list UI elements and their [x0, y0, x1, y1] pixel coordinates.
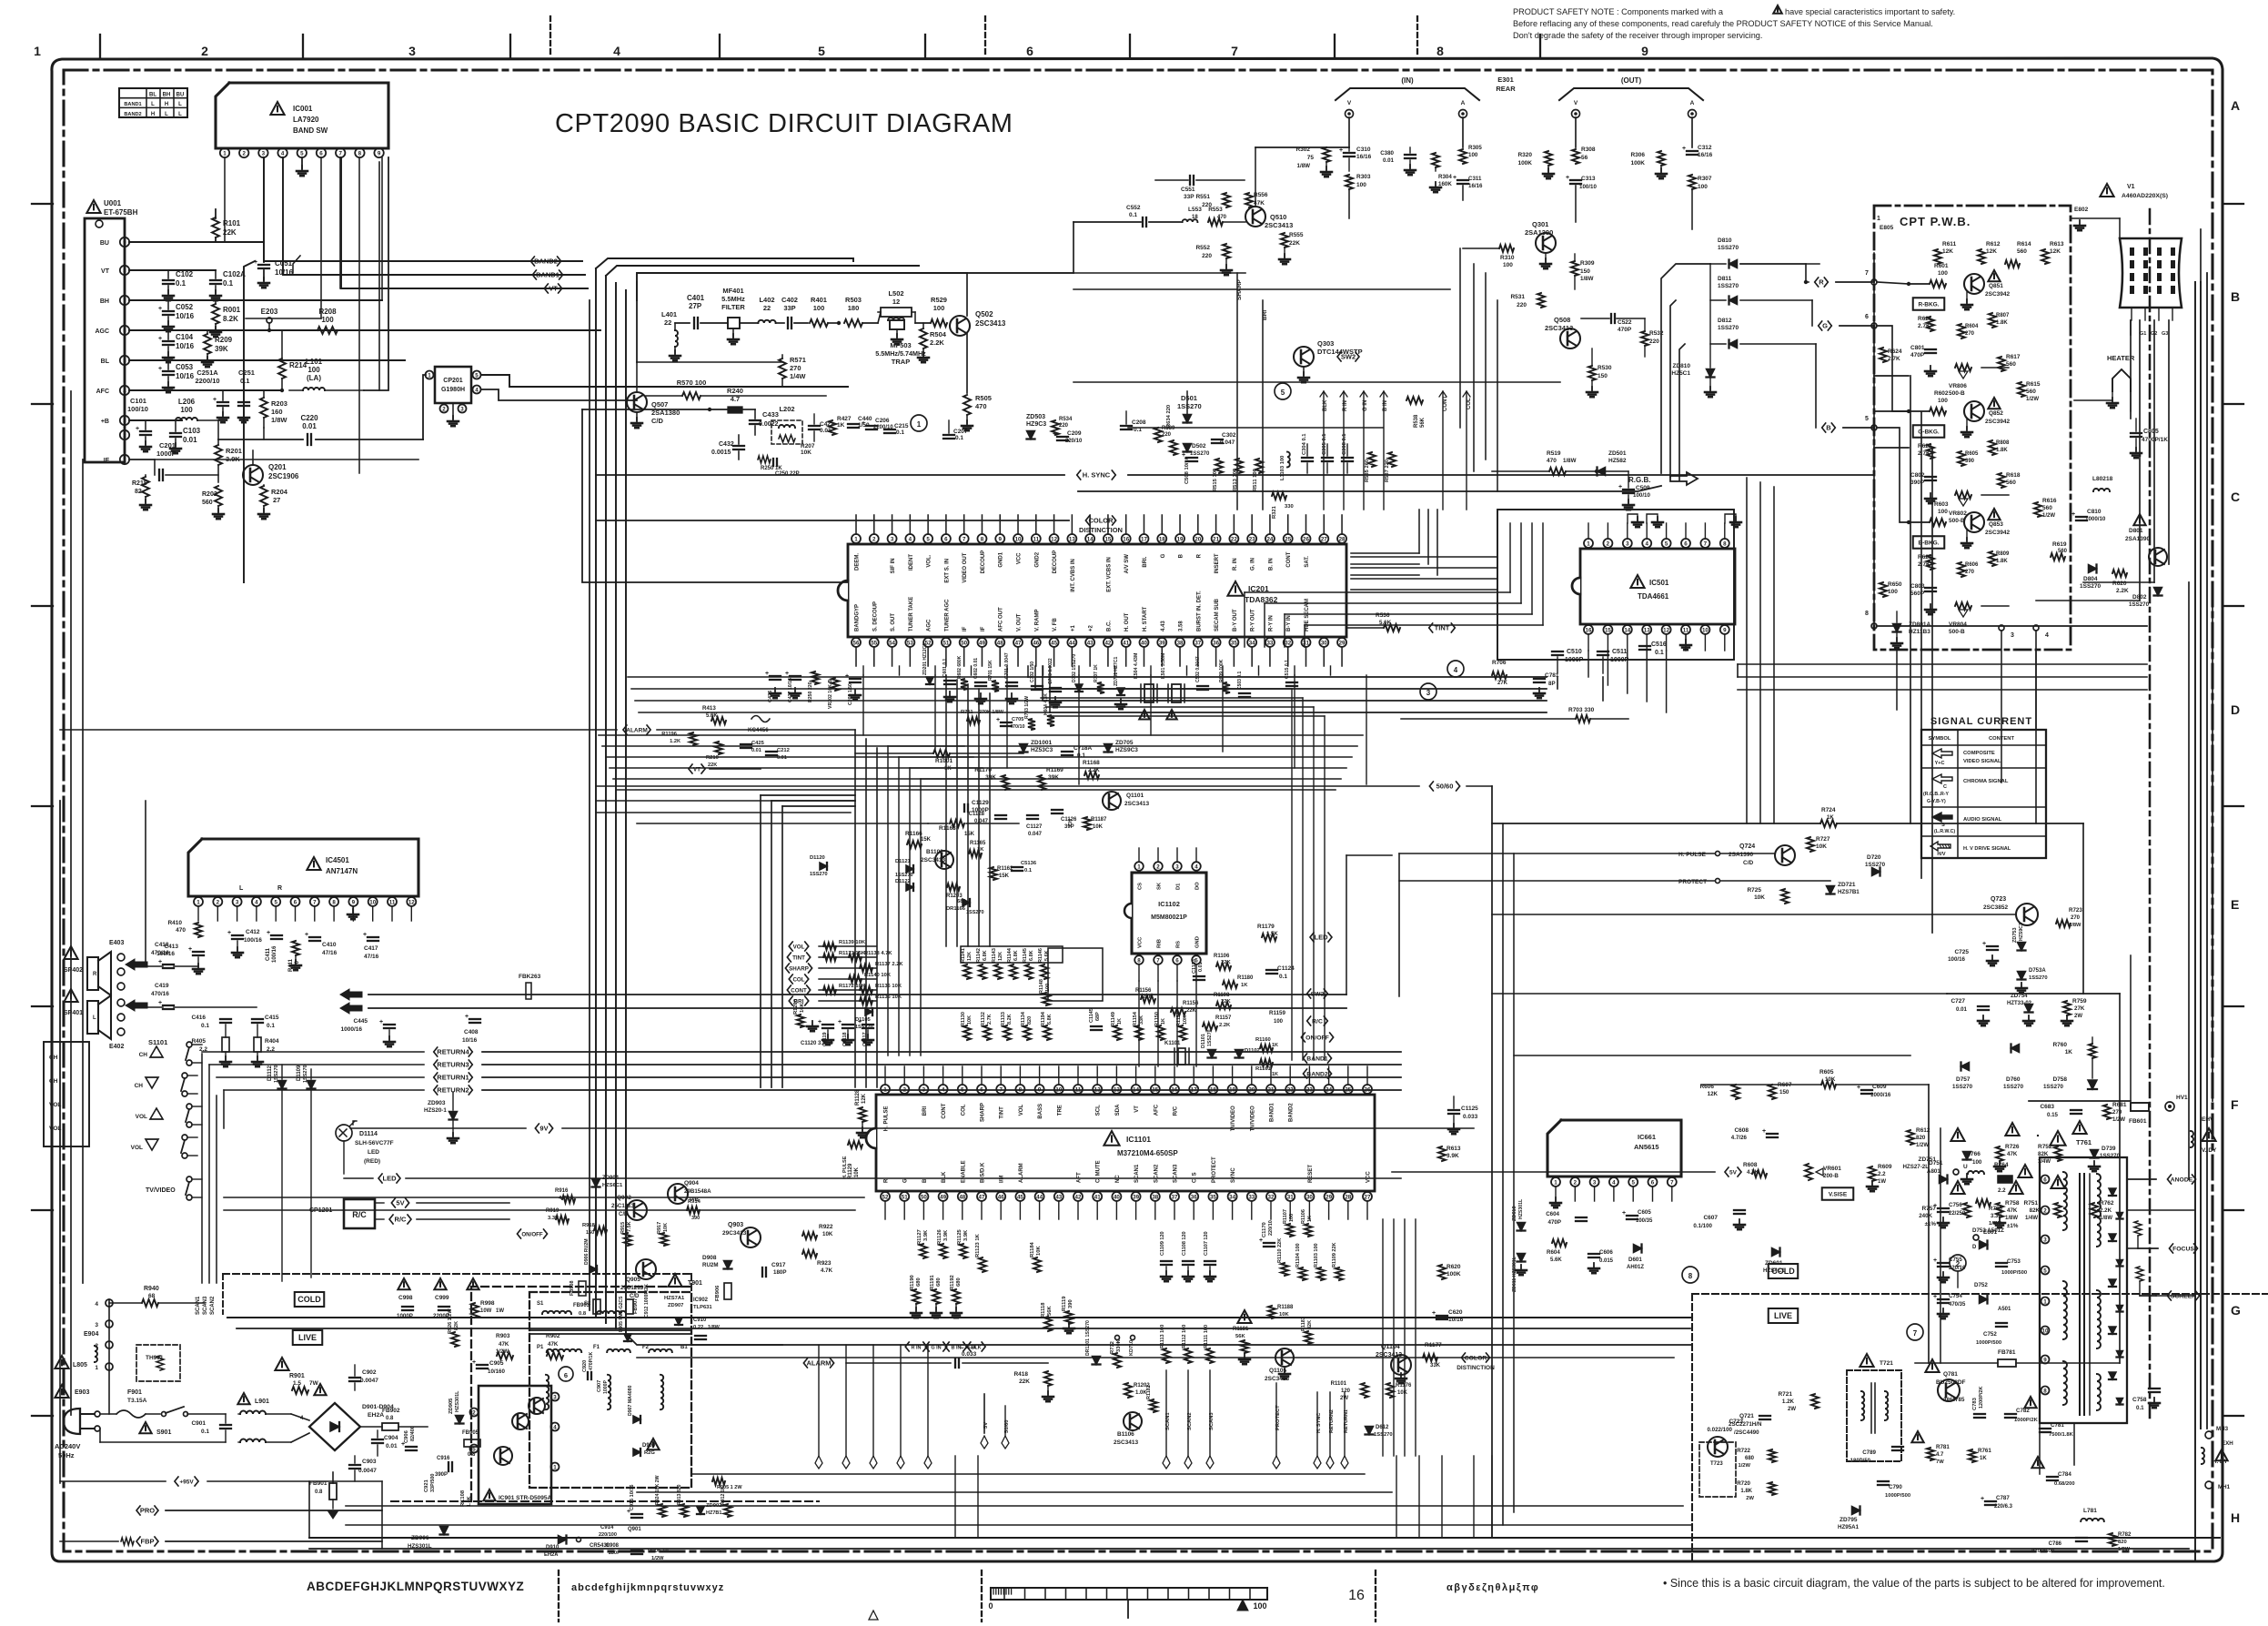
svg-text:7: 7	[338, 150, 342, 157]
svg-text:R724: R724	[1821, 807, 1836, 813]
svg-text:E402: E402	[109, 1044, 124, 1050]
svg-text:1SS270: 1SS270	[2129, 601, 2150, 608]
svg-text:100: 100	[1888, 589, 1898, 595]
svg-text:R1179: R1179	[1257, 924, 1275, 930]
svg-text:RETURN1: RETURN1	[437, 1074, 469, 1082]
svg-text:L101: L101	[306, 358, 323, 366]
svg-text:PROTECT: PROTECT	[1212, 1156, 1217, 1183]
svg-text:4.7: 4.7	[1936, 1452, 1944, 1458]
svg-text:C401: C401	[687, 294, 705, 302]
svg-text:180: 180	[848, 304, 860, 312]
svg-text:D720: D720	[1867, 854, 1881, 861]
svg-text:2SC3413: 2SC3413	[975, 319, 1006, 328]
svg-text:150: 150	[1598, 373, 1608, 379]
capacitor C102	[167, 270, 169, 278]
power connector circles	[106, 1299, 113, 1307]
svg-text:1K: 1K	[1241, 983, 1248, 988]
svg-text:4.43: 4.43	[1161, 621, 1166, 631]
svg-text:31: 31	[1303, 640, 1309, 646]
svg-text:IC901 STR-D5095A: IC901 STR-D5095A	[499, 1495, 551, 1501]
svg-text:R571: R571	[790, 356, 806, 364]
svg-text:C/D: C/D	[651, 417, 664, 425]
svg-text:560P: 560P	[1910, 591, 1925, 597]
svg-text:16: 16	[1586, 627, 1592, 633]
svg-text:EXT. VCBS IN: EXT. VCBS IN	[1106, 557, 1112, 592]
svg-text:20: 20	[1194, 536, 1201, 542]
svg-text:43: 43	[1055, 1194, 1062, 1200]
svg-text:30: 30	[1321, 640, 1327, 646]
resistor R208	[318, 327, 338, 334]
capacitor C422	[809, 425, 820, 427]
svg-text:V. DY: V. DY	[2202, 1147, 2217, 1154]
fuse FB901	[329, 1483, 337, 1500]
svg-text:7.5K: 7.5K	[627, 1221, 632, 1232]
R1188 resistor	[1268, 1306, 1275, 1318]
svg-text:EHV: EHV	[2202, 1116, 2214, 1123]
svg-text:C607: C607	[1703, 1215, 1718, 1221]
svg-text:4: 4	[553, 1424, 557, 1430]
svg-text:C502 0.0047: C502 0.0047	[1195, 656, 1201, 682]
svg-text:R1101: R1101	[1331, 1381, 1347, 1387]
svg-text:82K: 82K	[2030, 1207, 2041, 1214]
svg-text:D753 A501Z: D753 A501Z	[1972, 1227, 2004, 1234]
svg-text:L901: L901	[255, 1399, 269, 1405]
R903 R902 resistors	[497, 1352, 513, 1359]
svg-text:DO: DO	[1195, 882, 1201, 890]
svg-text:C516: C516	[1651, 641, 1667, 648]
svg-text:2: 2	[2043, 1207, 2047, 1214]
svg-text:2200/10: 2200/10	[195, 377, 219, 385]
svg-text:100/10: 100/10	[1579, 184, 1597, 190]
svg-text:1000P/500: 1000P/500	[2001, 1270, 2027, 1276]
svg-text:4.7K: 4.7K	[821, 1267, 833, 1274]
svg-text:9: 9	[123, 239, 126, 246]
svg-text:S901: S901	[156, 1429, 171, 1436]
bus corner bottom left	[626, 1334, 782, 1345]
svg-text:Q201: Q201	[268, 463, 287, 471]
svg-text:R552: R552	[1195, 245, 1210, 251]
resistor R505	[963, 395, 971, 415]
svg-text:R1181: R1181	[1233, 1327, 1249, 1332]
svg-text:L805: L805	[73, 1362, 87, 1368]
svg-text:FB902: FB902	[382, 1408, 400, 1414]
resistor R411	[292, 941, 299, 955]
switch bank box left	[44, 1042, 89, 1146]
svg-text:C1120 3.3/50: C1120 3.3/50	[801, 1041, 833, 1046]
svg-text:VOL.: VOL.	[927, 554, 932, 567]
svg-text:R1001: R1001	[935, 758, 953, 764]
bottom fold marks	[558, 1570, 559, 1621]
svg-text:3: 3	[553, 1394, 557, 1400]
svg-text:1: 1	[223, 150, 227, 157]
ZD601 zener	[1772, 1248, 1780, 1257]
svg-text:22K: 22K	[1143, 995, 1153, 1000]
R1118 R1119 resistors	[1044, 1317, 1052, 1331]
L781 bottom	[2081, 1519, 2104, 1521]
svg-text:ZD610: ZD610	[1512, 1206, 1517, 1221]
svg-text:47K: 47K	[548, 1341, 559, 1348]
svg-text:R1104 100: R1104 100	[1295, 1243, 1301, 1267]
svg-text:R504: R504	[930, 330, 947, 338]
svg-text:R: R	[93, 972, 97, 977]
FB905 fuse	[464, 1439, 480, 1447]
svg-text:220: 220	[1202, 253, 1212, 259]
svg-text:R903: R903	[496, 1333, 510, 1339]
svg-text:100/10: 100/10	[1633, 492, 1650, 499]
Q902 Q904 upper transistors	[627, 1200, 647, 1220]
svg-text:16: 16	[1348, 1588, 1365, 1603]
amp cell G-BKG.	[1930, 408, 1946, 415]
svg-text:DR1201 1SS270: DR1201 1SS270	[1085, 1320, 1091, 1356]
svg-text:AFC: AFC	[1154, 1104, 1159, 1116]
svg-text:R303: R303	[1356, 174, 1371, 180]
svg-text:2: 2	[123, 432, 126, 439]
double audio arrows	[340, 989, 362, 1000]
svg-text:Q301: Q301	[1532, 220, 1548, 228]
svg-text:(OUT): (OUT)	[1621, 76, 1642, 85]
wire from CPT to right bus	[1873, 253, 1875, 626]
svg-text:+B: +B	[101, 419, 109, 425]
wire BAND1 net	[283, 157, 585, 275]
capacitor C201	[129, 459, 155, 460]
svg-text:270: 270	[790, 364, 801, 372]
svg-text:R1190: R1190	[910, 1275, 915, 1290]
top right web verticals	[1473, 264, 1475, 471]
svg-text:D811: D811	[1718, 276, 1732, 282]
R706 C781 parts	[1492, 672, 1507, 679]
svg-text:C: C	[2231, 490, 2240, 504]
svg-text:VOL: VOL	[793, 944, 805, 951]
COLD LIVE right	[1769, 1264, 1798, 1278]
svg-text:35: 35	[1231, 640, 1237, 646]
svg-text:SHARP: SHARP	[981, 1103, 986, 1122]
svg-text:1/2W: 1/2W	[2026, 397, 2039, 402]
connector CP201	[435, 367, 471, 403]
svg-text:D1121: D1121	[895, 859, 912, 864]
svg-text:2SC3413: 2SC3413	[1124, 801, 1149, 807]
resistor R101	[212, 217, 219, 237]
svg-text:2SA1390: 2SA1390	[1525, 228, 1553, 237]
audio arrow left E402	[126, 1000, 147, 1011]
R609 resistor	[1869, 1166, 1876, 1181]
svg-text:41: 41	[1123, 640, 1129, 646]
svg-text:R758: R758	[2005, 1200, 2020, 1207]
C920 cap	[587, 1372, 589, 1379]
L766 D751 R764 row	[1968, 1171, 1984, 1174]
svg-text:8: 8	[1688, 1272, 1693, 1280]
R620 resistor	[2112, 570, 2127, 577]
svg-text:47/16: 47/16	[322, 950, 338, 956]
svg-text:680: 680	[1745, 1456, 1755, 1461]
svg-text:COL: COL	[792, 977, 804, 984]
svg-text:R1139 10K: R1139 10K	[839, 940, 866, 945]
svg-text:10: 10	[1015, 536, 1022, 542]
svg-text:G: G	[2231, 1303, 2241, 1318]
svg-text:2SC3413: 2SC3413	[1265, 221, 1293, 229]
svg-text:2W: 2W	[1746, 1496, 1754, 1501]
svg-text:16: 16	[1123, 536, 1129, 542]
resistor R001	[212, 304, 219, 324]
svg-text:1SS270: 1SS270	[2003, 1084, 2024, 1090]
svg-text:COLD: COLD	[1771, 1267, 1795, 1276]
left area bus wires	[59, 801, 61, 1283]
svg-text:HZS301L: HZS301L	[1518, 1198, 1524, 1219]
svg-text:8: 8	[1723, 540, 1727, 547]
svg-text:6: 6	[123, 328, 126, 334]
svg-text:H: H	[165, 102, 168, 107]
svg-text:560: 560	[2042, 505, 2052, 511]
svg-text:3: 3	[922, 1086, 926, 1093]
svg-text:K504 4.43M: K504 4.43M	[1134, 653, 1139, 679]
svg-text:7: 7	[1670, 1179, 1674, 1186]
svg-text:AH01Z: AH01Z	[1627, 1265, 1644, 1270]
svg-text:C552: C552	[1126, 205, 1141, 211]
svg-text:C907: C907	[597, 1380, 602, 1392]
svg-text:C705: C705	[1012, 717, 1023, 722]
D739 diode	[2091, 1150, 2099, 1158]
svg-text:1/8W: 1/8W	[1989, 1221, 2001, 1227]
svg-text:IC001: IC001	[293, 105, 313, 113]
svg-text:ON/OFF: ON/OFF	[521, 1232, 543, 1238]
DR1201 diode R712	[1093, 1357, 1101, 1365]
C1128 C1127 C1126 caps	[995, 814, 1006, 816]
svg-text:H: H	[151, 112, 155, 117]
svg-text:C052: C052	[176, 303, 194, 311]
svg-text:C1118: C1118	[842, 1032, 848, 1046]
svg-text:1000P: 1000P	[1610, 657, 1629, 663]
svg-text:100: 100	[933, 304, 945, 312]
svg-text:R: R	[1196, 553, 1202, 558]
svg-text:C904: C904	[384, 1435, 398, 1441]
C905 cap	[477, 1364, 488, 1366]
Q1101 transistor	[1103, 792, 1121, 810]
svg-text:MH3: MH3	[2216, 1426, 2229, 1432]
svg-text:C998: C998	[398, 1295, 413, 1301]
svg-text:C606: C606	[1599, 1249, 1613, 1256]
capacitor C101	[145, 420, 146, 429]
svg-text:R615: R615	[2026, 381, 2041, 388]
svg-text:R924 18K 2W: R924 18K 2W	[655, 1475, 660, 1505]
svg-text:C206: C206	[875, 418, 890, 424]
svg-text:VCC: VCC	[1017, 552, 1023, 564]
svg-text:IC4501: IC4501	[326, 856, 349, 864]
svg-text:R1149: R1149	[1111, 1012, 1116, 1026]
svg-text:B IN: B IN	[1383, 400, 1388, 411]
left bus to psu	[59, 1283, 61, 1483]
svg-text:+: +	[305, 932, 308, 938]
svg-text:C906: C906	[404, 1429, 409, 1443]
svg-text:T901: T901	[688, 1280, 702, 1287]
svg-text:8: 8	[981, 536, 984, 542]
svg-text:ZD501: ZD501	[1608, 450, 1627, 457]
svg-text:+: +	[379, 1019, 383, 1025]
svg-text:GND: GND	[1195, 936, 1201, 948]
svg-text:BAND1: BAND1	[1270, 1103, 1275, 1122]
R922 R923 resistors	[802, 1232, 817, 1239]
svg-text:T761: T761	[2076, 1138, 2092, 1146]
svg-text:12K: 12K	[862, 1093, 867, 1104]
svg-text:R1150: R1150	[1154, 1012, 1160, 1026]
wire VT net	[341, 157, 588, 288]
svg-text:39K: 39K	[215, 345, 228, 353]
wire IC001 pin5 ground	[301, 157, 303, 168]
svg-text:0.01: 0.01	[1956, 1006, 1968, 1013]
C502 R609 C503 parts	[1197, 685, 1208, 687]
Q1105 transistor	[1275, 1348, 1294, 1367]
capacitor C104	[167, 330, 169, 339]
svg-text:220: 220	[1059, 423, 1069, 429]
svg-text:G1980H: G1980H	[441, 387, 465, 393]
svg-text:33K: 33K	[1430, 1363, 1441, 1368]
svg-text:BU: BU	[100, 240, 109, 247]
svg-text:MH1: MH1	[2218, 1484, 2231, 1490]
svg-text:1SS270: 1SS270	[1952, 1084, 1973, 1090]
svg-text:C208: C208	[1132, 419, 1146, 426]
svg-text:22K: 22K	[1221, 999, 1231, 1005]
svg-text:0.1: 0.1	[1024, 868, 1033, 874]
svg-text:C790: C790	[1889, 1484, 1902, 1490]
svg-text:RIB: RIB	[1157, 939, 1163, 948]
svg-text:1/8W: 1/8W	[2100, 1216, 2112, 1221]
svg-text:VOL: VOL	[136, 1114, 147, 1120]
svg-text:1/2W: 1/2W	[1916, 1143, 1929, 1148]
D907 D909 diodes	[633, 1416, 640, 1423]
capacitor C103	[175, 420, 176, 431]
svg-text:44: 44	[1069, 640, 1075, 646]
svg-text:10K: 10K	[822, 1231, 833, 1237]
svg-text:C912 1000P/2K: C912 1000P/2K	[644, 1284, 650, 1318]
flyback T761	[2050, 1131, 2065, 1146]
svg-text:MF503: MF503	[890, 341, 911, 349]
svg-text:0.1: 0.1	[1279, 974, 1287, 980]
svg-text:G. IN: G. IN	[1251, 558, 1256, 571]
svg-text:RESET: RESET	[1308, 1165, 1314, 1183]
svg-text:7: 7	[1865, 270, 1869, 277]
svg-text:22K: 22K	[1019, 1379, 1030, 1385]
svg-text:R320: R320	[1517, 152, 1532, 158]
R606 R607 R605 C609 top row	[1732, 1085, 1739, 1099]
svg-text:3: 3	[1175, 863, 1179, 870]
IC501 pin10 gnd	[1685, 634, 1687, 642]
R1168 resistor	[1084, 772, 1099, 779]
row ticks right	[2223, 203, 2243, 205]
resistor R410	[195, 923, 202, 937]
svg-text:RU2M: RU2M	[702, 1262, 719, 1268]
svg-text:51: 51	[942, 640, 949, 646]
resistor R552	[1223, 244, 1230, 258]
svg-text:390: 390	[691, 1216, 700, 1221]
svg-text:R609 100K: R609 100K	[1219, 659, 1225, 682]
svg-text:820: 820	[1027, 1016, 1033, 1025]
svg-text:1K: 1K	[1827, 815, 1834, 821]
svg-text:R535 260: R535 260	[1365, 460, 1370, 482]
C607 cap	[1734, 1209, 1745, 1211]
svg-text:IC661: IC661	[1638, 1133, 1656, 1141]
svg-text:INSERT: INSERT	[1215, 553, 1220, 573]
svg-text:C1125: C1125	[1461, 1106, 1478, 1112]
svg-text:16/16: 16/16	[1698, 152, 1713, 158]
svg-text:R901: R901	[289, 1373, 305, 1379]
svg-text:αβγδεζηθλμξπφ: αβγδεζηθλμξπφ	[1446, 1582, 1539, 1593]
resistor R538	[1406, 397, 1423, 404]
svg-text:DISTINCTION: DISTINCTION	[1457, 1365, 1495, 1371]
svg-text:2: 2	[472, 1409, 476, 1416]
svg-text:1: 1	[1554, 1179, 1557, 1186]
svg-text:IC1102: IC1102	[1158, 900, 1180, 908]
svg-text:470: 470	[975, 402, 987, 410]
svg-text:1SS270: 1SS270	[1207, 1029, 1213, 1046]
svg-text:D1112: D1112	[267, 1065, 273, 1081]
svg-text:IF: IF	[981, 626, 986, 631]
svg-text:11: 11	[1683, 627, 1689, 633]
svg-text:D: D	[2231, 702, 2240, 717]
svg-text:BL: BL	[101, 359, 110, 365]
R1196 R210 C425 row	[690, 732, 697, 745]
svg-text:240K: 240K	[1919, 1213, 1932, 1219]
svg-text:C1109 120: C1109 120	[1160, 1231, 1165, 1256]
svg-text:C511: C511	[1612, 649, 1627, 655]
svg-text:C510: C510	[1567, 649, 1582, 655]
svg-text:R537 220: R537 220	[1385, 460, 1390, 482]
svg-text:SIF IN: SIF IN	[891, 558, 896, 573]
svg-text:3.9K: 3.9K	[923, 1229, 929, 1241]
capacitor C416 R405	[220, 1018, 231, 1020]
svg-text:F1: F1	[593, 1345, 600, 1350]
svg-text:SIGNAL CURRENT: SIGNAL CURRENT	[1930, 716, 2032, 727]
svg-text:1SS270: 1SS270	[2043, 1084, 2064, 1090]
svg-text:R1184: R1184	[1030, 1241, 1035, 1257]
svg-text:L802: L802	[2092, 476, 2106, 482]
switch CH up	[186, 1042, 192, 1047]
svg-text:25C1213: 25C1213	[611, 1203, 635, 1209]
svg-text:+: +	[1339, 147, 1343, 154]
svg-text:1K: 1K	[1980, 1456, 1987, 1461]
transistor Q508	[1560, 328, 1580, 348]
wire tuner AFC row	[129, 389, 282, 391]
svg-text:T723: T723	[1710, 1461, 1723, 1467]
svg-text:Q723: Q723	[1991, 896, 2006, 903]
IC1101 bottom pins	[881, 1192, 890, 1201]
svg-text:R1194: R1194	[1041, 1011, 1046, 1026]
svg-text:COLOR: COLOR	[1465, 1356, 1487, 1362]
R727 resistor	[1807, 837, 1814, 852]
svg-text:FB907: FB907	[633, 1298, 639, 1314]
right tall verticals HV	[2194, 282, 2196, 1561]
svg-text:ABCDEFGHJKLMNPQRSTUVWXYZ: ABCDEFGHJKLMNPQRSTUVWXYZ	[307, 1580, 524, 1593]
svg-text:VR804: VR804	[1949, 621, 1967, 628]
flyback extra winding texture	[2097, 1374, 2101, 1410]
C727 ZD754 R759 row	[1978, 1005, 1989, 1007]
R1123 resistor	[979, 1257, 986, 1272]
svg-text:VR202 10K-B: VR202 10K-B	[828, 679, 833, 709]
svg-text:SCAN2: SCAN2	[210, 1296, 216, 1315]
svg-text:2SC2271H/N: 2SC2271H/N	[1729, 1421, 1762, 1428]
svg-text:C727: C727	[1950, 998, 1965, 1005]
signal table	[1921, 730, 2046, 858]
svg-text:29: 29	[1339, 640, 1346, 646]
svg-text:RETURN4: RETURN4	[437, 1048, 469, 1056]
svg-text:MF401: MF401	[722, 287, 743, 295]
svg-text:820: 820	[1916, 1135, 1926, 1141]
svg-text:2.2K: 2.2K	[2100, 1207, 2112, 1214]
svg-text:8: 8	[123, 268, 126, 274]
svg-text:TRE: TRE	[1057, 1105, 1063, 1116]
svg-text:C783: C783	[1972, 1397, 1978, 1410]
svg-text:12K: 12K	[2050, 248, 2061, 255]
IC4501 pins	[194, 897, 203, 906]
svg-text:Q508: Q508	[1554, 316, 1570, 324]
svg-text:C: C	[1943, 784, 1947, 790]
